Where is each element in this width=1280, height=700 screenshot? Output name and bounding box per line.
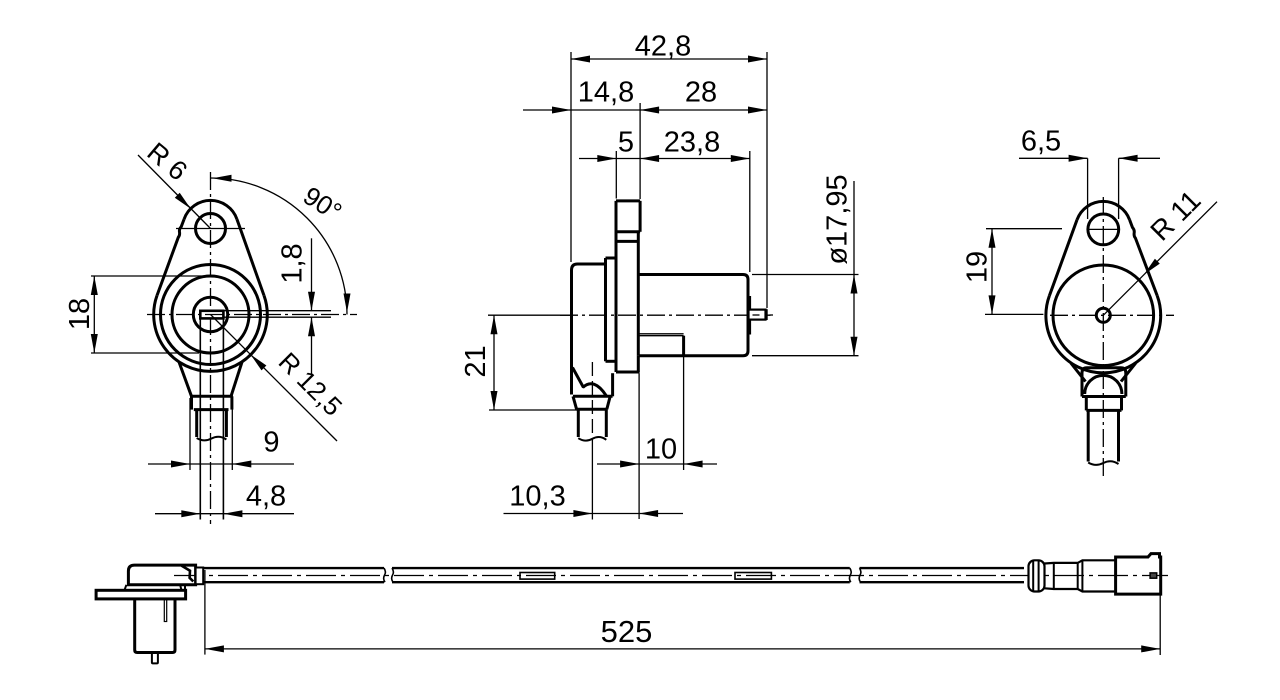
front view: slot in hub bbox=[200, 311, 223, 319]
assembly: sensor head outline bbox=[128, 565, 195, 585]
dimension 18: extension lines bbox=[91, 275, 209, 277]
assembly: cable coupler band bbox=[196, 568, 204, 585]
assembly: cable marker 1 bbox=[520, 573, 555, 580]
assembly: grommet bellows bbox=[1029, 560, 1045, 591]
svg-text:1,8: 1,8 bbox=[277, 243, 309, 283]
assembly: sensor body barrel bbox=[135, 599, 175, 653]
dimension 1,8: dimension line and arrows bbox=[311, 238, 313, 310]
assembly: connector housing bbox=[1116, 554, 1161, 595]
svg-text:10,3: 10,3 bbox=[509, 481, 565, 513]
side view: cylinder bottom notch bbox=[640, 333, 684, 335]
leader R 6 bbox=[138, 155, 211, 229]
rear view: right taper to boot bbox=[1121, 363, 1136, 382]
rear view: ear outer arc bbox=[1077, 201, 1130, 219]
dimension 9: extension lines bbox=[189, 398, 191, 470]
front view: ear outer arc bbox=[184, 200, 237, 219]
leader R 12,5 bbox=[211, 315, 338, 442]
front view: wavy break line bbox=[197, 437, 227, 441]
svg-text:23,8: 23,8 bbox=[664, 127, 720, 159]
svg-text:42,8: 42,8 bbox=[635, 31, 691, 63]
assembly: cable centerline bbox=[174, 575, 1168, 577]
dimension 14,8 / 28: dimension line bbox=[523, 109, 767, 111]
front view: nose mid section bbox=[195, 410, 198, 437]
front view: slot edge extension lines bbox=[223, 310, 331, 312]
dimension 10,3: dimension line bbox=[504, 513, 684, 515]
side view: collar ring behind flange bbox=[606, 257, 617, 260]
rear view: rubber boot bbox=[1082, 368, 1126, 397]
front view: right taper to nose bbox=[231, 362, 242, 396]
front view: hub circle bbox=[193, 297, 227, 331]
dimension o17,95: dimension line bbox=[853, 181, 855, 356]
dimension 90 degrees: arc bbox=[211, 178, 348, 315]
side view: nose collar bbox=[573, 395, 613, 398]
rear view: right tangent line with notch bbox=[1130, 220, 1158, 296]
rear view: ear hole horizontal crosshair bbox=[1089, 228, 1119, 230]
assembly: boot plate bbox=[124, 585, 181, 591]
dimension 4,8: dimension line bbox=[155, 513, 294, 515]
svg-text:10: 10 bbox=[645, 434, 677, 466]
assembly: head cable channel edges bbox=[182, 566, 194, 582]
dimension 525: extension lines bbox=[204, 570, 206, 655]
svg-text:6,5: 6,5 bbox=[1021, 126, 1061, 158]
assembly: body slot detail bbox=[164, 600, 166, 622]
rear view: rim circle bbox=[1053, 265, 1154, 366]
svg-text:ø17,95: ø17,95 bbox=[822, 174, 854, 264]
assembly: cable break marks bbox=[384, 568, 386, 582]
side view: barrel-nose dome bbox=[583, 384, 607, 396]
dimension 19: extension lines bbox=[986, 228, 1062, 230]
side view: cylinder o17,95 bbox=[639, 275, 748, 356]
side view: barrel body bbox=[572, 264, 606, 395]
dimension 21: extension line bbox=[489, 409, 579, 411]
front view: middle circle (18 dia) bbox=[172, 276, 249, 353]
dimension 6,5: dimension line bbox=[1019, 157, 1088, 159]
rear view: left taper to boot bbox=[1071, 363, 1086, 382]
assembly: mounting flange plate bbox=[96, 590, 186, 599]
side view: wavy break line bbox=[578, 437, 606, 441]
side view: horizontal centerline bbox=[488, 314, 572, 316]
front view: slot side lines down to nose tip bbox=[199, 317, 201, 519]
side view: terminal pin bbox=[749, 310, 766, 320]
dimension 42,8: extension lines bbox=[570, 52, 572, 262]
rear view: vertical centerline bbox=[1102, 197, 1104, 478]
svg-text:525: 525 bbox=[601, 614, 653, 649]
dimension 5 / 23,8: extension lines bbox=[615, 151, 617, 199]
dimension 6,5: extension lines bbox=[1087, 158, 1089, 219]
side view: barrel chamfer edge bbox=[573, 368, 584, 388]
svg-text:18: 18 bbox=[64, 298, 96, 330]
front view: left tangent line with notch bbox=[157, 219, 184, 295]
rear view: horizontal centerline bbox=[1050, 314, 1174, 316]
side view: flange plate bbox=[615, 201, 618, 372]
dimension 5 / 23,8: dimension line bbox=[579, 158, 750, 160]
dimension 21: dimension line bbox=[493, 315, 495, 410]
front view: rim circle bbox=[161, 265, 261, 365]
front view: right tangent line bbox=[237, 219, 264, 295]
assembly: connector neck A bbox=[1045, 560, 1116, 563]
rear view: center dot circle bbox=[1096, 308, 1110, 322]
dimension 42,8: dimension line bbox=[571, 58, 767, 60]
front view: vertical centerline bbox=[210, 172, 212, 524]
dimension 14,8 and 28: shared extension line bbox=[639, 103, 641, 199]
dimension o17,95: extension lines bbox=[752, 274, 859, 276]
dimension 19: dimension line bbox=[991, 229, 993, 315]
rear view: wavy break line bbox=[1088, 461, 1118, 465]
svg-text:21: 21 bbox=[460, 345, 492, 377]
svg-text:9: 9 bbox=[263, 427, 279, 459]
dimension 10: extension lines bbox=[638, 374, 640, 520]
dimension 18: dimension line bbox=[93, 276, 95, 353]
svg-text:28: 28 bbox=[685, 77, 717, 109]
rear view: nose collar bbox=[1085, 397, 1088, 411]
svg-text:14,8: 14,8 bbox=[578, 77, 634, 109]
svg-text:4,8: 4,8 bbox=[246, 481, 286, 513]
front view: ear mounting hole bbox=[196, 214, 226, 244]
front view: nose collar bbox=[191, 395, 233, 398]
assembly: cable marker 2 bbox=[735, 573, 771, 580]
side view: boot behind flange bbox=[611, 373, 614, 396]
front view: ear hole crosshair bbox=[176, 228, 245, 230]
rear view: ear mounting hole bbox=[1088, 214, 1119, 245]
rear view: nose tip bbox=[1087, 410, 1090, 461]
assembly: elbow bottom edge bbox=[184, 585, 186, 591]
front view: left taper to nose bbox=[179, 362, 192, 396]
dimension 9: dimension line bbox=[148, 463, 294, 465]
svg-text:5: 5 bbox=[618, 127, 634, 159]
assembly: nose stub bbox=[152, 653, 158, 664]
side view: pin base marks bbox=[749, 296, 751, 335]
rear view: outer contour arc bbox=[1046, 296, 1161, 373]
rear view: left tangent line bbox=[1049, 220, 1077, 296]
side view: nose vertical centerline bbox=[591, 362, 593, 449]
leader R 11 bbox=[1103, 202, 1217, 316]
front view: horizontal centerline bbox=[147, 314, 357, 316]
dimension 525: dimension line bbox=[205, 648, 1160, 650]
assembly: cable runs bbox=[203, 567, 384, 569]
dimension 10,3: extension line bbox=[591, 449, 593, 520]
dimension 10: dimension line bbox=[597, 463, 717, 465]
side view: nose mid section bbox=[577, 409, 580, 437]
assembly: connector terminal bbox=[1150, 573, 1157, 578]
rear view: boot dome bbox=[1085, 375, 1122, 394]
svg-text:19: 19 bbox=[962, 251, 994, 283]
front view: outer contour arc bbox=[154, 296, 268, 372]
